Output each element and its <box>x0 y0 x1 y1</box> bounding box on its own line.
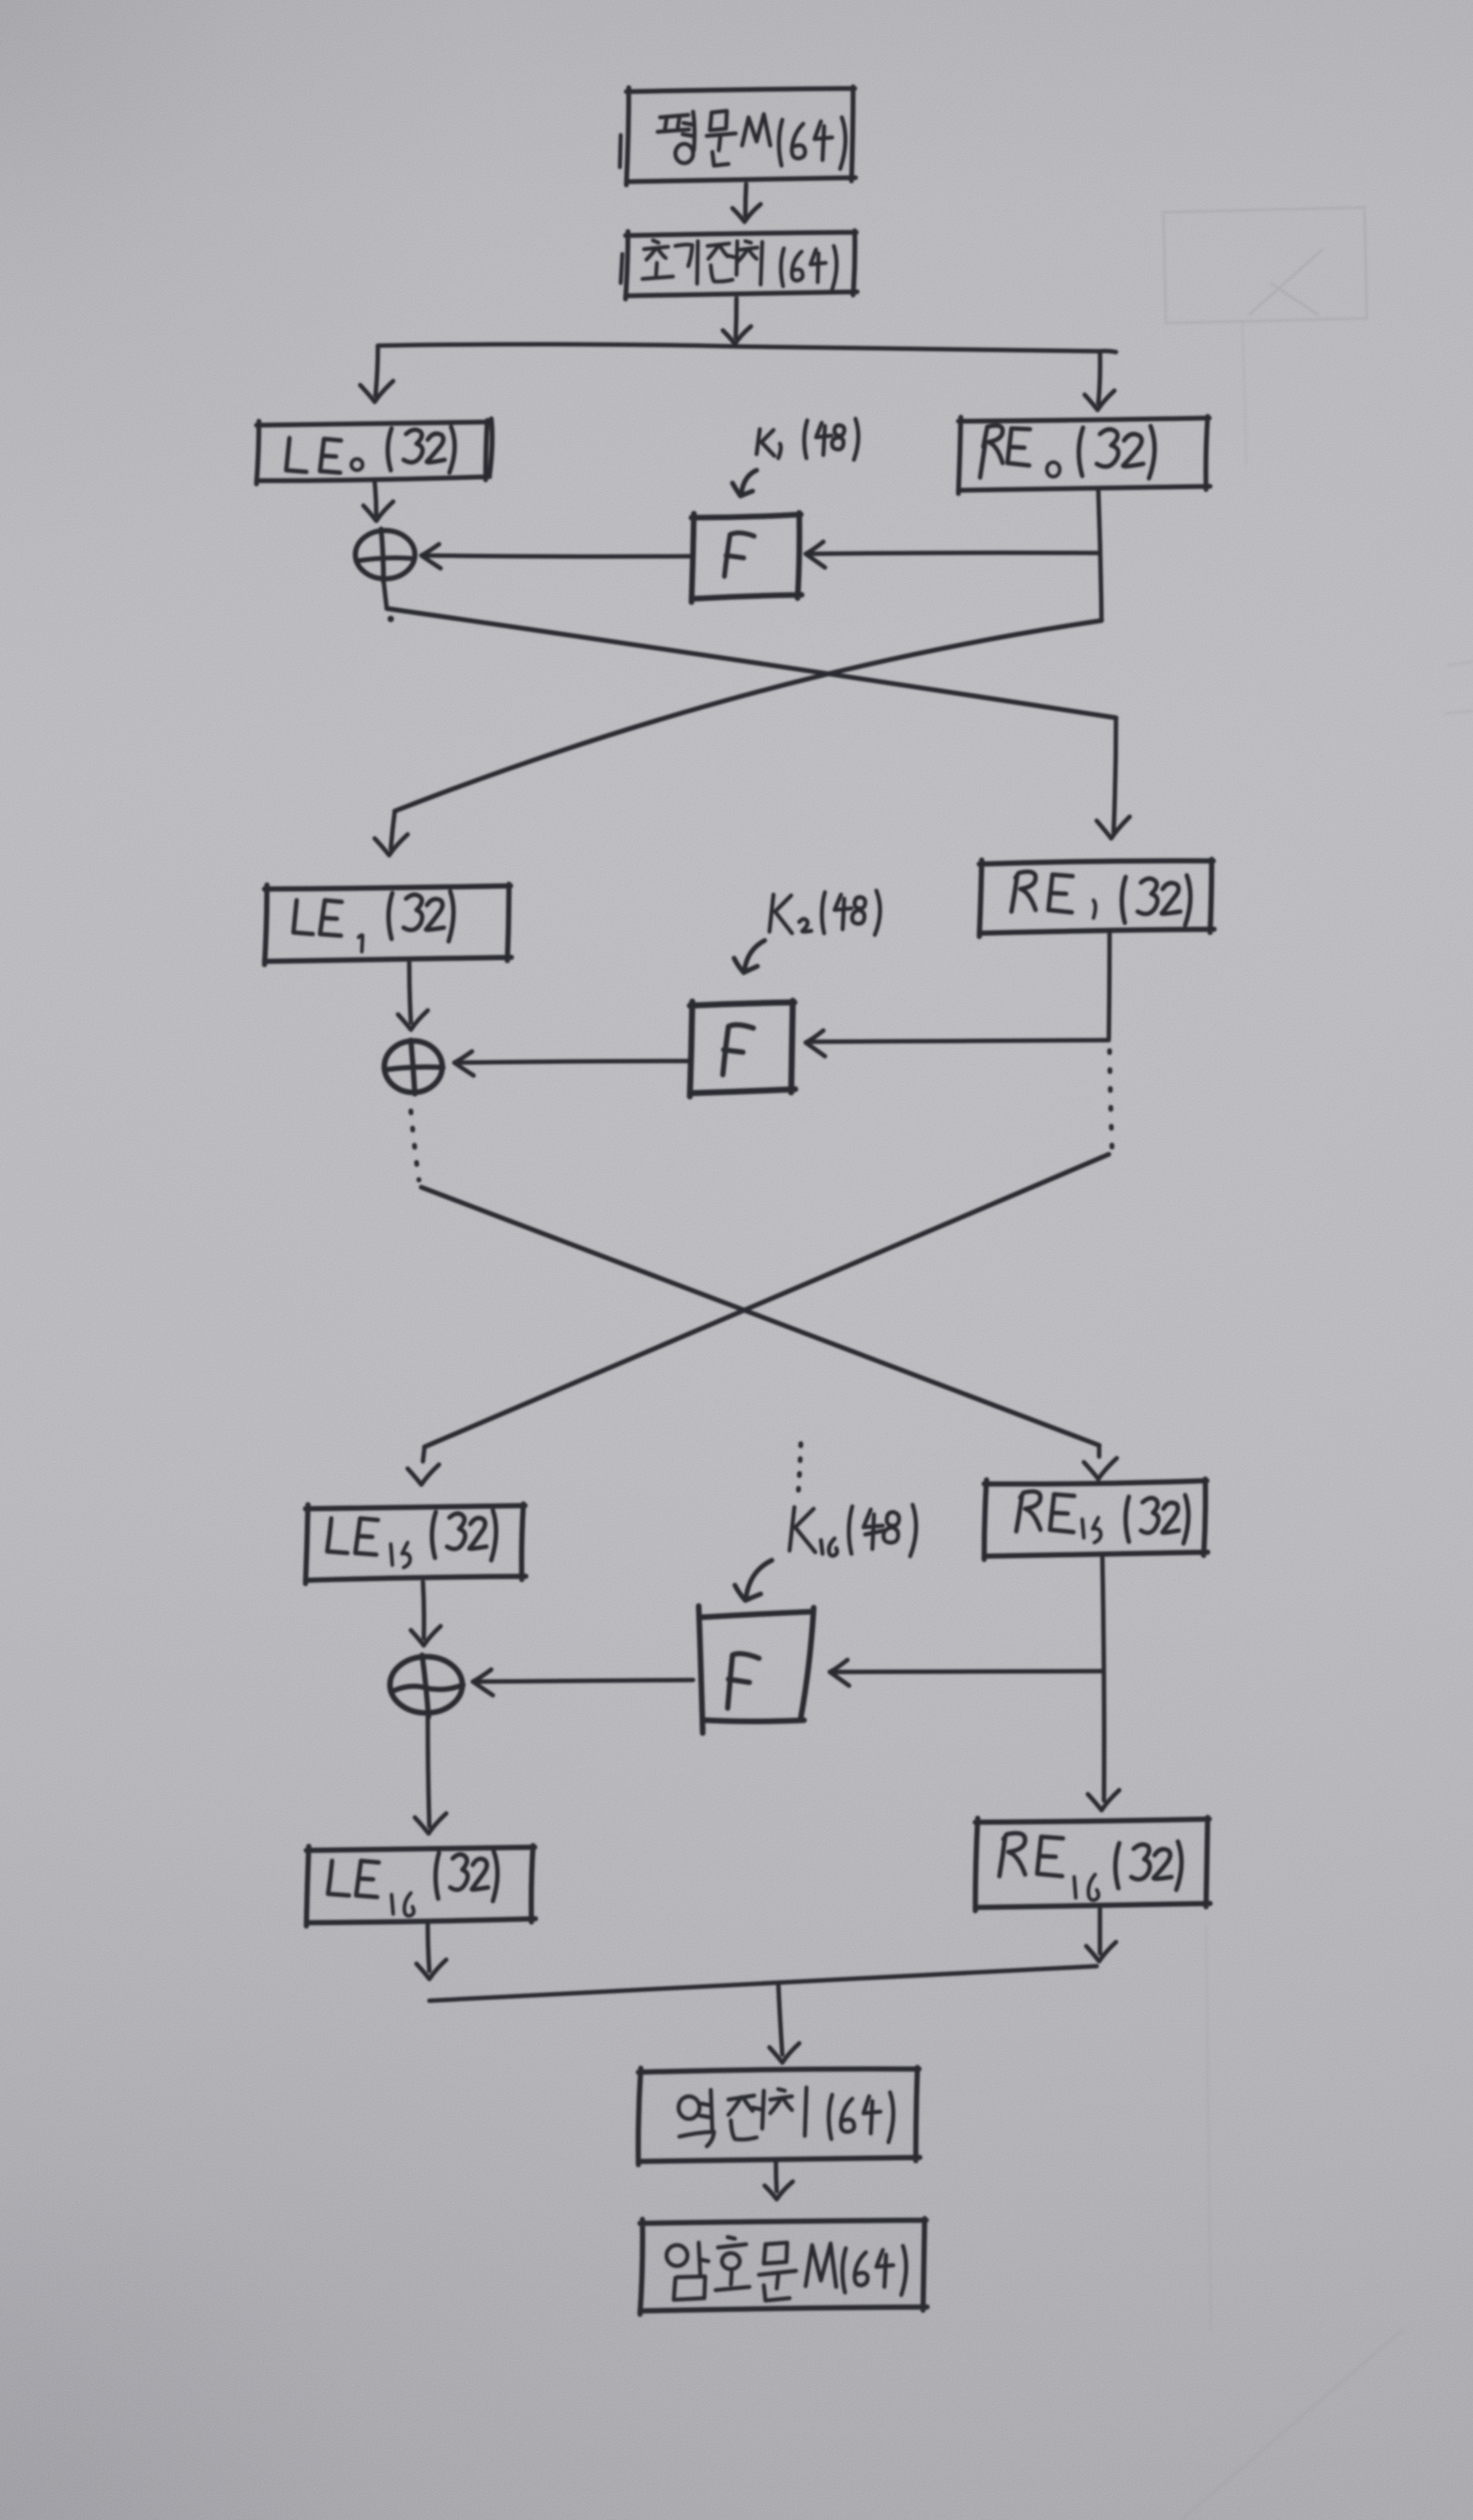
wire cross1 down to LE1 <box>391 811 395 849</box>
arrow 평문→초기전치 <box>732 184 761 222</box>
box LE0 (32) <box>256 420 490 484</box>
text (64)(1) <box>779 117 846 169</box>
arrow RE1 branch→F <box>806 1031 1109 1056</box>
wire XOR3 output down <box>428 1716 429 1826</box>
text (32)(RE16) <box>1115 1842 1181 1890</box>
text 전(2) <box>728 2091 764 2140</box>
wire cross1 down to RE1 <box>1114 718 1116 832</box>
wire split right elbow <box>1098 351 1116 404</box>
wire cross2 left-to-right <box>421 1187 1099 1445</box>
text LE(3) <box>327 1518 378 1555</box>
text F(2) <box>723 1025 753 1075</box>
arrow 초기전치→split <box>723 298 751 344</box>
subscript 15 of RE15 <box>1082 1518 1101 1543</box>
box F (round3) <box>699 1606 814 1733</box>
arrow LE1→XOR2 <box>398 963 428 1030</box>
subscript 0 of RE0 <box>1047 462 1060 477</box>
box F (round2) <box>690 1001 795 1096</box>
wire RE1 down <box>1109 933 1110 1039</box>
ink dot below XOR1 <box>388 616 394 622</box>
arrowhead into LE15 <box>408 1447 439 1485</box>
box LE15 (32) <box>306 1504 526 1584</box>
arrowhead into LE1 <box>375 834 408 855</box>
arrowhead into RE15 <box>1084 1445 1117 1479</box>
arrow F→XOR3 <box>473 1670 693 1695</box>
text K16 (48) <box>790 1505 916 1556</box>
text (64)(3) <box>829 2092 893 2142</box>
hook arrow K2→F <box>734 940 765 973</box>
text K2 (48) <box>769 891 880 935</box>
text (32)(LE15) <box>432 1510 496 1560</box>
arrowhead into RE0 <box>1085 391 1114 410</box>
subscript 1 of LE1 <box>359 935 363 952</box>
tick left of 평문 box <box>620 135 621 167</box>
subscript 15 of LE15 <box>391 1543 410 1567</box>
dotted wire below RE1 branch <box>1110 1051 1112 1147</box>
dotted wire below XOR2 <box>411 1111 419 1180</box>
arrowhead into LE16 <box>415 1813 446 1834</box>
wire cross1 left-to-right <box>387 608 1116 718</box>
box 암호문 M (64) <box>640 2219 927 2314</box>
text RE(1) <box>980 425 1030 477</box>
wire split horizontal <box>378 344 1100 351</box>
wire cross2 right-to-left <box>425 1154 1109 1447</box>
text (32)(LE0) <box>388 427 454 473</box>
text (32)(RE1) <box>1122 875 1190 925</box>
box 초기전치 (64) <box>626 231 857 299</box>
text RE(4) <box>999 1834 1063 1876</box>
arrow F→XOR2 <box>454 1051 688 1076</box>
box RE16 (32) <box>975 1817 1210 1911</box>
text 전(1) <box>708 241 737 281</box>
arrowhead into RE16 <box>1088 1790 1119 1810</box>
subscript 0 of LE0 <box>351 459 363 470</box>
text (32)(LE1) <box>388 891 453 941</box>
text M(2) <box>806 2243 836 2287</box>
subscript 16 of LE16 <box>392 1893 414 1916</box>
text K1 (48) <box>757 419 859 460</box>
double stroke right of LE0 box <box>490 419 492 474</box>
text LE(1) <box>286 438 341 473</box>
box RE0 (32) <box>958 416 1210 494</box>
text (64)(4) <box>843 2246 906 2295</box>
box RE1 (32) <box>979 859 1214 936</box>
text 치(1) <box>738 241 762 285</box>
text F(1) <box>724 533 754 576</box>
arrow LE16→merge <box>416 1924 446 1979</box>
hook arrow K16→F <box>735 1560 772 1600</box>
subscript 16 of RE16 <box>1074 1875 1098 1900</box>
box RE15 (32) <box>984 1479 1208 1559</box>
wire RE0 down <box>1098 490 1102 621</box>
subscript 1 of RE1 <box>1093 900 1096 918</box>
box 평문 M (64) <box>626 87 855 185</box>
text LE(2) <box>293 900 342 936</box>
text RE(3) <box>1016 1491 1074 1532</box>
text (64)(2) <box>781 246 836 289</box>
wire merge horizontal <box>429 1966 1097 2001</box>
arrow LE0→XOR1 <box>363 482 393 521</box>
arrowhead into LE0 <box>360 381 393 402</box>
arrow RE15 branch→F <box>830 1660 1103 1686</box>
arrow 역전치→암호문 <box>765 2162 793 2199</box>
text LE(4) <box>328 1861 379 1897</box>
ghost bleed-through marks <box>1163 207 1473 2519</box>
box 역전치 (64) <box>638 2067 920 2165</box>
text 치(2) <box>770 2088 806 2136</box>
text (32)(LE16) <box>436 1851 498 1901</box>
wire RE15 down <box>1102 1556 1104 1801</box>
text F(3) <box>728 1653 759 1708</box>
box F (round1) <box>691 513 802 602</box>
arrowhead into RE1 <box>1097 817 1130 838</box>
arrow F→XOR1 <box>421 544 691 568</box>
arrow RE16→merge <box>1086 1909 1116 1961</box>
tick left of 초기전치 box <box>621 254 622 283</box>
hook arrow K1→F <box>732 470 757 496</box>
text 평 <box>658 112 695 163</box>
XOR node 1 <box>355 529 415 582</box>
text 역 <box>679 2090 714 2146</box>
text (32)(RE15) <box>1126 1495 1188 1543</box>
wire XOR1 output down <box>384 580 387 608</box>
XOR node 2 <box>384 1040 443 1094</box>
text 기 <box>675 241 698 284</box>
box LE1 (32) <box>265 884 511 965</box>
text 문(2) <box>759 2243 796 2301</box>
text 초 <box>642 240 673 279</box>
text (32)(RE0) <box>1079 426 1155 478</box>
arrow merge→역전치 <box>769 1984 799 2063</box>
wire cross1 right-to-left <box>395 621 1102 811</box>
arrow RE0 branch→F <box>806 542 1100 568</box>
wire split left elbow <box>375 346 378 395</box>
XOR node 3 <box>390 1655 463 1717</box>
text 문(1) <box>707 111 736 166</box>
text 호 <box>716 2237 749 2290</box>
text 암 <box>667 2243 708 2300</box>
box LE16 (32) <box>306 1846 535 1926</box>
text RE(2) <box>1011 871 1073 912</box>
text M(1) <box>742 114 770 145</box>
dotted wire above K16 <box>798 1444 801 1490</box>
arrow LE15→XOR3 <box>411 1582 441 1645</box>
